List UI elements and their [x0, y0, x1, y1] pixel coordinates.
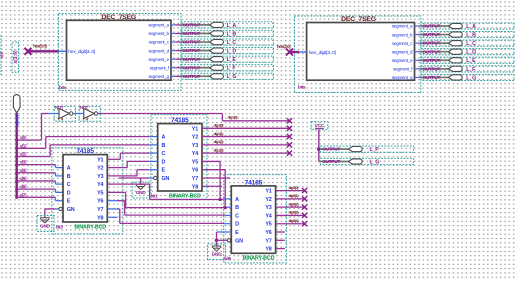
svg-text:L_D: L_D	[466, 50, 476, 56]
svg-text:L_C: L_C	[227, 40, 237, 46]
svg-text:Y7: Y7	[265, 238, 271, 244]
svg-text:Y2: Y2	[192, 135, 198, 141]
svg-text:L_D: L_D	[227, 49, 237, 55]
svg-text:C: C	[235, 213, 239, 219]
svg-text:OUTPUT: OUTPUT	[423, 58, 441, 64]
svg-text:B: B	[235, 205, 239, 211]
svg-text:bits: bits	[298, 84, 306, 90]
svg-text:dig1(3): dig1(3)	[214, 147, 225, 152]
svg-text:74185: 74185	[245, 179, 263, 186]
svg-text:Y8: Y8	[265, 247, 271, 253]
svg-text:OUTPUT: OUTPUT	[183, 48, 201, 54]
svg-text:GND: GND	[136, 190, 147, 196]
svg-text:Y4: Y4	[265, 213, 271, 219]
svg-text:segment_g: segment_g	[392, 75, 413, 80]
svg-text:OUTPUT: OUTPUT	[423, 75, 441, 81]
svg-text:Y5: Y5	[97, 190, 103, 196]
svg-text:L_G: L_G	[370, 159, 380, 165]
svg-text:B: B	[67, 174, 71, 180]
svg-text:OUTPUT: OUTPUT	[183, 74, 201, 80]
svg-text:Y4: Y4	[97, 182, 103, 188]
svg-text:DEC_7SEG: DEC_7SEG	[341, 16, 376, 23]
svg-text:Y7: Y7	[192, 176, 198, 182]
svg-text:dig0(1): dig0(1)	[289, 193, 300, 198]
svg-text:OUTPUT: OUTPUT	[322, 147, 340, 153]
svg-text:bits: bits	[59, 85, 67, 91]
svg-text:L_G: L_G	[227, 74, 237, 80]
svg-text:D: D	[67, 190, 71, 196]
svg-text:L_E: L_E	[227, 57, 237, 63]
svg-text:GN: GN	[162, 176, 170, 182]
svg-text:OUTPUT: OUTPUT	[183, 65, 201, 71]
svg-text:hex_digit[3..0]: hex_digit[3..0]	[68, 49, 96, 55]
svg-text:x[2]: x[2]	[20, 152, 27, 157]
svg-text:Y5: Y5	[265, 222, 271, 228]
svg-text:Y6: Y6	[265, 230, 271, 236]
svg-text:OUTPUT: OUTPUT	[423, 32, 441, 38]
svg-text:Y1: Y1	[97, 157, 103, 163]
svg-text:BINARY-BCD: BINARY-BCD	[74, 224, 106, 230]
svg-text:Y2: Y2	[265, 197, 271, 203]
svg-text:dig1(1): dig1(1)	[214, 131, 225, 136]
svg-text:L_C: L_C	[466, 41, 476, 47]
svg-text:OUTPUT: OUTPUT	[183, 31, 201, 37]
svg-text:Y4: Y4	[192, 151, 198, 157]
svg-text:segment_e: segment_e	[148, 57, 169, 62]
svg-text:segment_g: segment_g	[148, 74, 169, 79]
svg-text:L_G: L_G	[466, 75, 476, 81]
svg-text:A: A	[235, 197, 239, 203]
svg-text:E: E	[162, 168, 166, 174]
svg-text:bit3: bit3	[56, 225, 63, 230]
svg-text:OUTPUT: OUTPUT	[423, 41, 441, 47]
svg-text:dig1(3): dig1(3)	[228, 114, 239, 119]
svg-text:Y5: Y5	[192, 159, 198, 165]
svg-text:Y6: Y6	[192, 168, 198, 174]
svg-text:GN: GN	[67, 207, 75, 213]
svg-text:OUTPUT: OUTPUT	[322, 159, 340, 165]
svg-text:segment_f: segment_f	[150, 65, 170, 70]
svg-text:hex_digit[3..0]: hex_digit[3..0]	[309, 50, 337, 56]
svg-text:segment_d: segment_d	[148, 48, 169, 53]
svg-text:74185: 74185	[171, 117, 189, 124]
svg-text:E: E	[235, 230, 239, 236]
svg-text:OUTPUT: OUTPUT	[183, 57, 201, 63]
svg-text:74185: 74185	[76, 148, 94, 155]
svg-text:B: B	[162, 143, 166, 149]
svg-text:GND: GND	[212, 252, 223, 258]
svg-text:segment_d: segment_d	[392, 49, 413, 54]
svg-text:OUTPUT: OUTPUT	[423, 24, 441, 30]
svg-text:segment_a: segment_a	[148, 23, 169, 28]
svg-text:hex(3:0): hex(3:0)	[33, 43, 47, 48]
svg-text:Y8: Y8	[97, 215, 103, 221]
svg-text:L_A: L_A	[227, 23, 237, 29]
svg-text:segment_c: segment_c	[392, 41, 413, 46]
svg-text:D: D	[235, 222, 239, 228]
svg-text:C: C	[67, 182, 71, 188]
svg-text:OUTPUT: OUTPUT	[183, 40, 201, 46]
svg-text:x(3: x(3	[0, 51, 4, 58]
svg-text:Y6: Y6	[97, 199, 103, 205]
svg-text:A: A	[162, 135, 166, 141]
svg-text:x[1]: x[1]	[20, 143, 27, 148]
svg-text:BINARY-BCD: BINARY-BCD	[169, 193, 201, 199]
svg-text:NOT: NOT	[80, 105, 89, 110]
svg-text:DEC_7SEG: DEC_7SEG	[101, 14, 136, 21]
svg-text:A: A	[67, 166, 71, 172]
svg-text:segment_f: segment_f	[393, 67, 413, 72]
svg-text:OUTPUT: OUTPUT	[423, 49, 441, 55]
svg-text:L_F: L_F	[227, 66, 237, 72]
svg-text:L_A: L_A	[466, 24, 476, 30]
svg-text:L_B: L_B	[466, 32, 476, 38]
svg-text:C: C	[162, 151, 166, 157]
svg-text:Y2: Y2	[97, 166, 103, 172]
svg-text:Y1: Y1	[192, 126, 198, 132]
svg-text:segment_b: segment_b	[148, 31, 169, 36]
svg-text:Y8: Y8	[192, 184, 198, 190]
svg-text:x[0]: x[0]	[20, 135, 27, 140]
svg-text:hex(3:0): hex(3:0)	[277, 44, 291, 49]
svg-text:E: E	[67, 199, 71, 205]
svg-text:NOT: NOT	[55, 105, 64, 110]
svg-text:dig0(4): dig0(4)	[289, 218, 300, 223]
svg-text:L_P: L_P	[370, 147, 380, 153]
svg-text:segment_c: segment_c	[149, 40, 170, 45]
svg-text:Y3: Y3	[192, 143, 198, 149]
svg-text:dig0(3): dig0(3)	[289, 210, 300, 215]
svg-text:bit1: bit1	[151, 194, 158, 199]
svg-text:L_B: L_B	[227, 31, 237, 37]
svg-text:Y3: Y3	[97, 174, 103, 180]
svg-text:segment_b: segment_b	[392, 32, 413, 37]
svg-text:Y3: Y3	[265, 205, 271, 211]
svg-text:dig0(2): dig0(2)	[289, 201, 300, 206]
svg-text:L_F: L_F	[466, 67, 476, 73]
svg-text:dig1(2): dig1(2)	[214, 139, 225, 144]
svg-text:x(3:0): x(3:0)	[13, 50, 19, 64]
svg-text:dig1(0): dig1(0)	[214, 123, 225, 128]
svg-text:BINARY-BCD: BINARY-BCD	[243, 256, 275, 262]
svg-text:x(3:0): x(3:0)	[14, 114, 19, 126]
svg-text:GN: GN	[235, 238, 243, 244]
svg-text:L_E: L_E	[466, 58, 476, 64]
svg-text:GND: GND	[40, 223, 51, 229]
svg-text:dig0(0): dig0(0)	[289, 185, 300, 190]
svg-text:segment_e: segment_e	[392, 58, 413, 63]
svg-text:OUTPUT: OUTPUT	[423, 66, 441, 72]
svg-text:Y1: Y1	[265, 189, 271, 195]
svg-text:segment_a: segment_a	[392, 24, 413, 29]
svg-text:D: D	[162, 159, 166, 165]
svg-text:OUTPUT: OUTPUT	[183, 23, 201, 29]
svg-text:Y7: Y7	[97, 207, 103, 213]
